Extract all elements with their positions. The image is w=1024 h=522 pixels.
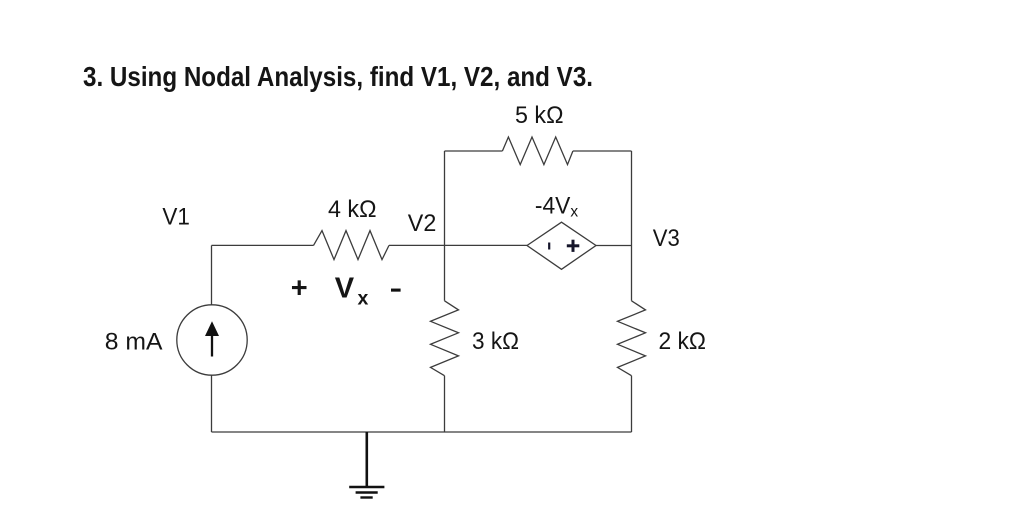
svg-text:3. Using Nodal Analysis, find: 3. Using Nodal Analysis, find V1, V2, an… <box>83 61 593 92</box>
svg-text:+: + <box>291 273 308 305</box>
svg-text:V2: V2 <box>408 210 437 237</box>
svg-text:V3: V3 <box>653 225 680 252</box>
svg-text:V1: V1 <box>162 204 190 231</box>
svg-text:x: x <box>570 203 578 220</box>
svg-text:2 kΩ: 2 kΩ <box>659 328 707 355</box>
svg-text:3 kΩ: 3 kΩ <box>472 328 519 355</box>
svg-text:V: V <box>335 273 355 305</box>
svg-text:5 kΩ: 5 kΩ <box>515 102 564 129</box>
svg-text:x: x <box>358 287 369 309</box>
svg-text:8 mA: 8 mA <box>105 328 163 355</box>
svg-text:4 kΩ: 4 kΩ <box>328 196 377 223</box>
svg-text:-4V: -4V <box>535 192 571 219</box>
